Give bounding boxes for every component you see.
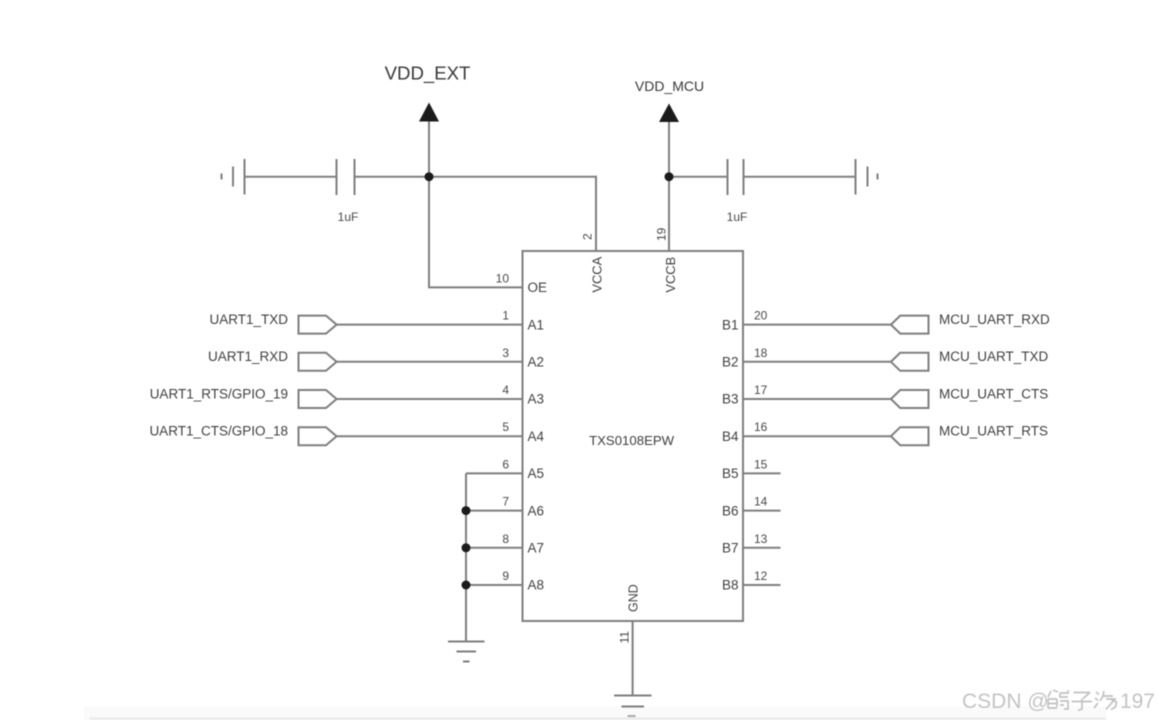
net flag UART1_RTS/GPIO_19 [299, 390, 337, 408]
svg-text:1uF: 1uF [727, 210, 748, 224]
node junction A6 [462, 506, 471, 515]
svg-text:VCCA: VCCA [590, 256, 605, 292]
svg-text:MCU_UART_TXD: MCU_UART_TXD [939, 349, 1049, 364]
svg-text:A4: A4 [528, 429, 545, 444]
svg-text:4: 4 [502, 383, 509, 397]
svg-text:9: 9 [502, 569, 509, 583]
wire junction to C2 [669, 176, 727, 178]
node junction VDD_EXT [425, 172, 434, 181]
watermark hanzi ge [1048, 690, 1068, 709]
svg-text:VDD_MCU: VDD_MCU [635, 78, 704, 94]
wire A6 [466, 510, 523, 512]
capacitor C2 (1uF) [728, 159, 744, 195]
svg-text:1uF: 1uF [338, 210, 359, 224]
svg-text:UART1_RTS/GPIO_19: UART1_RTS/GPIO_19 [150, 386, 288, 401]
net flag MCU_UART_CTS [891, 390, 929, 408]
wire VCCB drop [668, 177, 670, 251]
svg-text:15: 15 [754, 457, 768, 471]
svg-text:A6: A6 [528, 503, 545, 518]
net flag UART1_RXD [299, 353, 337, 371]
svg-text:14: 14 [754, 495, 768, 509]
net flag MCU_UART_TXD [891, 353, 929, 371]
svg-text:VDD_EXT: VDD_EXT [385, 63, 471, 85]
wire C1 to VCCA corner [356, 176, 597, 178]
ground (A5-A8 bus) [448, 642, 485, 662]
svg-text:A7: A7 [528, 541, 545, 556]
scrollbar strip bottom [84, 707, 1106, 720]
wire B8 [743, 584, 781, 586]
svg-text:A2: A2 [528, 355, 545, 370]
svg-text:UART1_CTS/GPIO_18: UART1_CTS/GPIO_18 [149, 424, 288, 439]
svg-text:18: 18 [754, 346, 768, 360]
svg-text:6: 6 [502, 457, 509, 471]
svg-text:CSDN @: CSDN @ [962, 690, 1049, 713]
wire A4 [336, 435, 523, 437]
svg-text:TXS0108EPW: TXS0108EPW [589, 433, 675, 448]
svg-text:UART1_TXD: UART1_TXD [209, 312, 288, 327]
ground right rail (rotated) [856, 159, 878, 195]
svg-text:20: 20 [754, 309, 768, 323]
svg-text:MCU_UART_CTS: MCU_UART_CTS [939, 386, 1048, 401]
wire A1 [336, 324, 523, 326]
svg-text:3: 3 [502, 346, 509, 360]
wire A5 [466, 472, 523, 474]
svg-text:7: 7 [502, 495, 509, 509]
svg-text:MCU_UART_RTS: MCU_UART_RTS [939, 424, 1048, 439]
wire B6 [743, 510, 781, 512]
svg-text:5: 5 [502, 420, 509, 434]
IC U1 body TXS0108EPW [523, 251, 744, 621]
svg-text:12: 12 [754, 569, 768, 583]
wire B1 [743, 324, 891, 326]
watermark CSDN text [962, 690, 1155, 713]
wire B4 [743, 435, 891, 437]
node junction A7 [462, 543, 471, 552]
svg-text:MCU_UART_RXD: MCU_UART_RXD [939, 312, 1050, 327]
svg-text:A8: A8 [528, 578, 545, 593]
wire OE branch [429, 177, 523, 288]
svg-text:1: 1 [502, 309, 509, 323]
wire A7 [466, 547, 523, 549]
capacitor C1 (1uF) [337, 159, 355, 195]
svg-text:A3: A3 [528, 392, 545, 407]
svg-text:13: 13 [754, 532, 768, 546]
wire B2 [743, 361, 891, 363]
wire B5 [743, 472, 781, 474]
svg-text:A1: A1 [528, 317, 545, 332]
watermark hanzi zi [1072, 693, 1093, 711]
svg-text:11: 11 [618, 631, 632, 644]
svg-text:16: 16 [754, 420, 768, 434]
ground (U1 GND pin) [614, 696, 652, 717]
net flag UART1_CTS/GPIO_18 [299, 427, 337, 445]
wire A2 [336, 361, 523, 363]
net flag MCU_UART_RTS [891, 427, 929, 445]
svg-text:B4: B4 [722, 429, 739, 444]
svg-text:17: 17 [754, 383, 768, 397]
svg-text:2: 2 [581, 233, 595, 240]
svg-text:GND: GND [627, 584, 641, 612]
watermark hanzi tang [1094, 691, 1117, 710]
svg-text:19: 19 [655, 227, 669, 241]
wire A5-A8 bus vertical [465, 473, 467, 641]
net flag MCU_UART_RXD [891, 316, 929, 334]
node junction VDD_MCU [665, 172, 674, 181]
node junction A8 [462, 581, 471, 590]
net flag UART1_TXD [299, 316, 337, 334]
svg-text:VCCB: VCCB [663, 257, 678, 293]
wire C2 to ground [745, 176, 856, 178]
wire B7 [743, 547, 781, 549]
svg-text:8: 8 [502, 532, 509, 546]
svg-text:UART1_RXD: UART1_RXD [208, 349, 288, 364]
svg-text:10: 10 [496, 271, 510, 285]
svg-text:B3: B3 [722, 392, 739, 407]
power symbol VDD_EXT [419, 103, 439, 177]
wire ground to C1 [245, 176, 337, 178]
wire GND stub [632, 621, 634, 695]
wire VCCA drop [595, 176, 597, 251]
wire A3 [336, 398, 523, 400]
svg-text:B1: B1 [722, 317, 739, 332]
svg-text:OE: OE [528, 280, 548, 295]
svg-text:B2: B2 [722, 355, 739, 370]
wire A8 [466, 584, 523, 586]
svg-text:B5: B5 [722, 466, 739, 481]
svg-text:197: 197 [1120, 690, 1155, 713]
svg-text:A5: A5 [528, 466, 545, 481]
wire B3 [743, 398, 891, 400]
svg-text:B7: B7 [722, 541, 739, 556]
svg-text:B8: B8 [722, 578, 739, 593]
svg-text:B6: B6 [722, 503, 739, 518]
ground left rail (rotated) [222, 159, 245, 195]
power symbol VDD_MCU [659, 104, 679, 177]
